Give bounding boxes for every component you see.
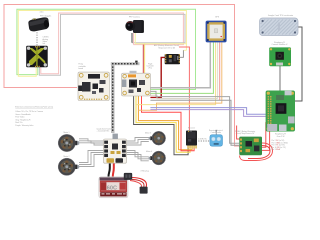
motor wires M2 [79, 151, 104, 167]
FC right board [122, 71, 151, 96]
svg-text:link: link [43, 43, 46, 45]
svg-text:Motor 2: Motor 2 [63, 155, 69, 158]
header strip FC to ESC [111, 62, 140, 133]
svg-text:Zero 2 W: Zero 2 W [277, 135, 285, 138]
dashed link goggles-VTX [36, 32, 38, 45]
svg-text:Control) radio: Control) radio [211, 131, 221, 134]
wire camera drop yellow [134, 33, 136, 44]
usb cable TPU to Pi [291, 27, 302, 101]
wire pink (camera video to VTX) [41, 13, 184, 74]
wire dark-red BEC to FC [150, 57, 165, 97]
svg-text:(FC): (FC) [149, 68, 153, 70]
VTX board [26, 46, 48, 68]
wire red Pi to BEC board 1 [262, 123, 267, 148]
wire violet to Pi [150, 110, 266, 117]
wire FC bottom black [134, 96, 189, 155]
wire yellow stub to gray bracket [183, 49, 186, 51]
svg-text:FPV Goggles: FPV Goggles [40, 15, 51, 17]
wire GPS gray [150, 42, 210, 87]
svg-text:Pink: Video: Pink: Video [15, 117, 24, 119]
label FC left [79, 64, 87, 70]
wire FC cream uart [150, 95, 217, 98]
dashed link TX-RX [198, 140, 209, 142]
wire bright red BEC down to receiver [179, 47, 189, 130]
wire GPS white [217, 42, 219, 98]
svg-text:Receiver: Receiver [188, 127, 195, 129]
wire FC gray wide [150, 100, 239, 145]
BEC small black board [165, 54, 180, 64]
motor M1 [58, 134, 79, 151]
label 5.8GHz link [43, 37, 49, 46]
battery [99, 173, 148, 198]
wire blue to Pi [150, 108, 266, 115]
wire red BEC board loops [240, 143, 273, 161]
svg-text:Google Coral TPU accelerator: Google Coral TPU accelerator [268, 14, 294, 17]
wire yellow (VTX power loop) [18, 11, 186, 77]
motor M4 [149, 151, 166, 165]
motor wires M1 [79, 139, 104, 145]
Raspberry Pi camera [269, 47, 291, 66]
wire red Pi to BEC board 2 [262, 125, 270, 151]
svg-text:Camera Module v2: Camera Module v2 [272, 43, 288, 46]
Google Coral TPU [260, 18, 299, 36]
svg-text:Motor 1: Motor 1 [63, 131, 69, 134]
wire battery-red big loop (FC-left to BEC green board) [4, 5, 240, 147]
wire GPS salmon [219, 42, 221, 100]
motor M2 [58, 158, 79, 175]
wire camera drop pink [133, 33, 135, 45]
battery balance red loop [132, 178, 147, 191]
ribbon camera to Pi [279, 66, 281, 91]
svg-text:Pin 3 SDA: Pin 3 SDA [272, 148, 281, 151]
FC left board [78, 72, 109, 100]
wire gray (camera gnd to VTX) [39, 14, 185, 75]
svg-text:60C: 60C [107, 185, 117, 191]
svg-text:Motor 4: Motor 4 [146, 150, 152, 153]
wire GPS yellow [136, 42, 216, 104]
svg-text:Red: 5V+: Red: 5V+ [15, 122, 23, 124]
svg-text:Purple: Telemetry links: Purple: Telemetry links [15, 124, 33, 127]
BEC green board [239, 137, 262, 156]
wire GPS green [150, 42, 213, 93]
FPV camera [125, 20, 144, 33]
svg-text:Circuit) Step-Down to 5V: Circuit) Step-Down to 5V [236, 132, 255, 135]
wire camera drop black [131, 33, 133, 43]
GPS module [206, 21, 227, 43]
svg-text:video: video [40, 12, 44, 14]
wire drop yellow into FC top [144, 44, 146, 73]
svg-text:External connections (Point-: External connections (Point-to-Point wir… [15, 105, 53, 108]
legend [15, 105, 53, 127]
header strip pin1 marker [135, 61, 137, 63]
FPV goggles [28, 17, 50, 32]
wire FC gray uart 1 [150, 91, 239, 143]
RC transmitter [210, 130, 223, 146]
svg-text:Step-Down 5V to 3A: Step-Down 5V to 3A [158, 47, 175, 50]
wire red pair into BEC board top [237, 126, 240, 140]
motor wires M3 [127, 138, 149, 146]
Raspberry Pi Zero 2 W [266, 91, 295, 132]
svg-text:+ mounted ESC: + mounted ESC [97, 130, 110, 133]
svg-text:Motor 3: Motor 3 [145, 132, 151, 135]
wire gray bracket into BEC [180, 50, 183, 57]
svg-text:Green: SmartAudio: Green: SmartAudio [15, 113, 30, 116]
wire FC bottom orange [138, 96, 192, 150]
label FC right [147, 62, 155, 69]
wire camera yellow tee [135, 43, 186, 45]
svg-text:Yellow: 5V+, Rx, TX/Trx to: Yellow: 5V+, Rx, TX/Trx to Camera [15, 110, 43, 113]
motor M3 [149, 131, 166, 145]
svg-text:2.4GHz RC: 2.4GHz RC [198, 139, 207, 141]
svg-text:XT60 plug: XT60 plug [141, 170, 149, 172]
svg-text:FPV Camera: FPV Camera [129, 16, 141, 19]
wire FC bottom yellow [136, 96, 190, 152]
wire GPS orange [138, 42, 221, 110]
battery thick red wire [113, 163, 114, 176]
motor wires M4 [127, 151, 149, 161]
wire green (VTX to FC) [17, 9, 196, 89]
ESC 4in1 [104, 134, 127, 164]
wire drop red into FC top [142, 45, 144, 74]
battery thick black wire [109, 163, 110, 176]
svg-text:board: board [79, 68, 84, 70]
label pin list [272, 139, 289, 151]
svg-text:Gray: Raspberry Pi: Gray: Raspberry Pi [15, 119, 31, 121]
receiver [186, 131, 197, 149]
wire FC bottom red [142, 96, 195, 151]
